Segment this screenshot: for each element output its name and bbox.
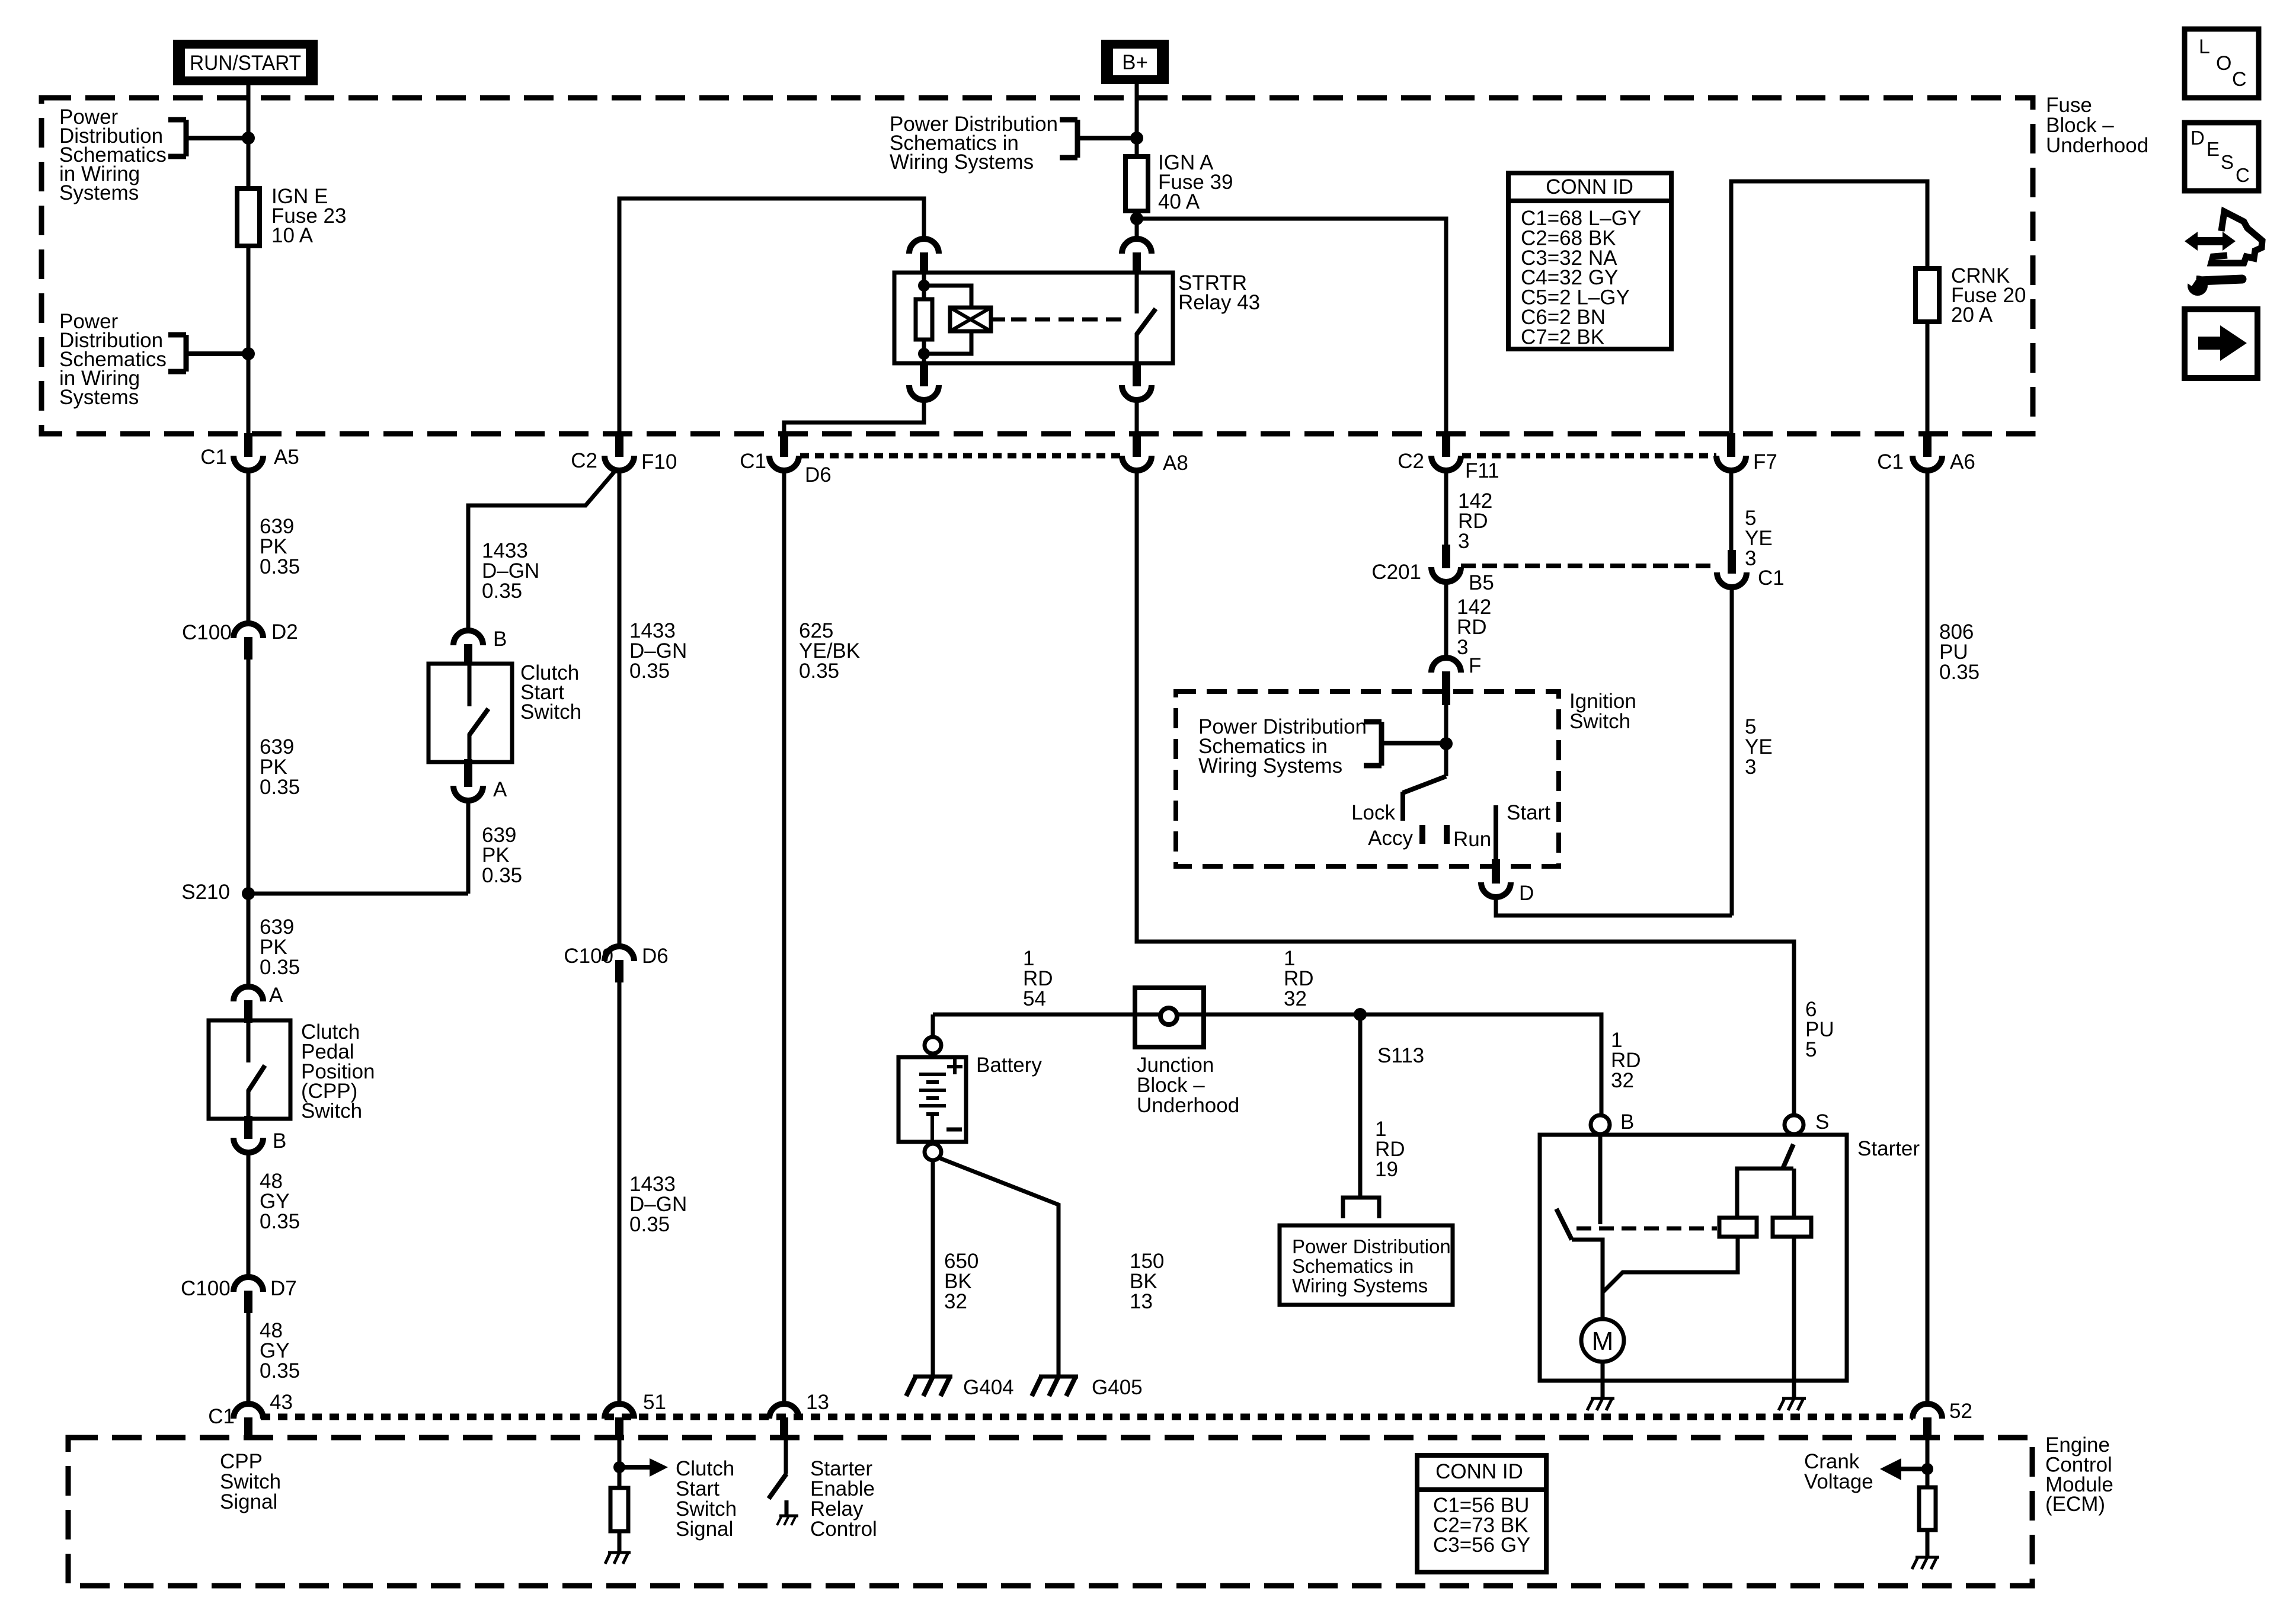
- svg-text:C: C: [2232, 68, 2247, 91]
- starter dashed actuator line: [1576, 1227, 1717, 1231]
- relay pin 87 connector: [1133, 363, 1141, 386]
- svg-text:Switch: Switch: [520, 700, 581, 724]
- svg-text:D7: D7: [270, 1277, 297, 1300]
- svg-text:Starter: Starter: [1857, 1137, 1920, 1160]
- dotted line D6 to A8: [800, 453, 1122, 459]
- connector C1-43: [244, 1417, 252, 1440]
- svg-text:B: B: [493, 628, 507, 651]
- svg-text:Relay 43: Relay 43: [1178, 291, 1260, 314]
- connector 13: [780, 1417, 788, 1440]
- wire D to starter S branch: [1496, 897, 1732, 916]
- svg-text:(ECM): (ECM): [2045, 1493, 2105, 1516]
- svg-text:C2: C2: [1398, 450, 1424, 473]
- svg-text:F11: F11: [1465, 459, 1499, 482]
- terminal B+: [1101, 40, 1169, 84]
- wire battery negative to G405: [938, 1157, 1059, 1376]
- svg-text:S210: S210: [181, 881, 230, 904]
- relay coil circuit: [922, 273, 926, 363]
- dotted ECM boundary line: [261, 1414, 1913, 1420]
- connector F of ignition switch: [1442, 671, 1450, 705]
- svg-text:Schematics in: Schematics in: [1292, 1255, 1414, 1277]
- connector F7: [1727, 433, 1735, 457]
- wire S113 to starter B: [1360, 1014, 1601, 1115]
- starter B terminal: [1591, 1115, 1610, 1134]
- svg-text:3: 3: [1458, 530, 1469, 553]
- starter box: [1540, 1135, 1847, 1381]
- svg-text:0.35: 0.35: [260, 1210, 300, 1233]
- connector A of clutch start switch: [464, 759, 472, 787]
- relay coil X symbol: [950, 308, 991, 331]
- svg-text:Signal: Signal: [676, 1518, 733, 1541]
- resistor in ECM (clutch): [610, 1488, 628, 1531]
- svg-text:Lock: Lock: [1351, 801, 1395, 824]
- wire pull-in coil to motor: [1603, 1237, 1738, 1292]
- svg-text:Run: Run: [1453, 828, 1491, 851]
- svg-text:Wiring Systems: Wiring Systems: [1198, 754, 1342, 777]
- connector to power distribution reference: [1343, 1198, 1379, 1218]
- svg-text:C3=56 GY: C3=56 GY: [1433, 1534, 1530, 1557]
- svg-text:0.35: 0.35: [260, 956, 300, 979]
- svg-text:Battery: Battery: [976, 1054, 1042, 1077]
- connector C1-D6: [780, 433, 788, 457]
- relay pin 85 connector: [920, 363, 928, 386]
- svg-text:Systems: Systems: [59, 386, 139, 409]
- svg-text:B5: B5: [1469, 571, 1494, 594]
- connector C2-F11: [1442, 433, 1450, 457]
- svg-text:S: S: [2221, 151, 2234, 173]
- connector A of CPP switch: [244, 1000, 252, 1023]
- wire F7 up over to CRNK fuse: [1731, 181, 1927, 434]
- svg-text:0.35: 0.35: [260, 555, 300, 578]
- svg-text:Power Distribution: Power Distribution: [1292, 1235, 1451, 1257]
- connector C1-A6: [1923, 433, 1932, 457]
- svg-text:10 A: 10 A: [271, 224, 314, 247]
- svg-text:0.35: 0.35: [1939, 661, 1980, 684]
- svg-text:F7: F7: [1753, 450, 1777, 473]
- connector C100-D6: [615, 960, 623, 982]
- relay pin 30 connector: [1133, 252, 1141, 274]
- wire C100-D6 down to ECM 51: [618, 982, 622, 1404]
- svg-text:S113: S113: [1377, 1044, 1424, 1067]
- connector 51: [615, 1417, 623, 1440]
- CPP switch blade: [247, 1020, 251, 1062]
- wire B+ down to relay: [1135, 84, 1139, 239]
- relay actuator stub: [991, 318, 1005, 322]
- svg-text:D6: D6: [805, 463, 832, 486]
- splice S113: [1354, 1008, 1367, 1021]
- relay STRTR Relay 43 box: [894, 273, 1173, 363]
- ignition switch dashed box: [1176, 692, 1559, 866]
- bracket upper-left: [184, 120, 189, 156]
- connector B of CPP switch: [244, 1116, 252, 1139]
- svg-text:Wiring Systems: Wiring Systems: [890, 151, 1034, 174]
- svg-text:Wiring Systems: Wiring Systems: [1292, 1275, 1428, 1297]
- svg-text:0.35: 0.35: [260, 1359, 300, 1382]
- svg-text:B+: B+: [1122, 51, 1148, 74]
- wire C1-D6 down to ECM 13: [782, 470, 786, 1404]
- wire battery negative to G404: [931, 1160, 935, 1376]
- svg-text:Signal: Signal: [220, 1490, 277, 1513]
- svg-text:0.35: 0.35: [629, 1213, 670, 1236]
- svg-text:D2: D2: [271, 620, 298, 644]
- svg-text:C100: C100: [182, 621, 232, 644]
- svg-text:20 A: 20 A: [1951, 303, 1993, 327]
- svg-text:3: 3: [1457, 636, 1468, 659]
- CPP switch box: [209, 1020, 290, 1119]
- svg-text:F: F: [1469, 654, 1481, 677]
- wire S210 down: [247, 894, 251, 987]
- connector C100-D7: [244, 1291, 252, 1313]
- ground G404: [913, 1375, 952, 1379]
- wire CPP B down: [247, 1153, 251, 1278]
- relay switch: [1135, 274, 1139, 313]
- bracket ignition: [1379, 722, 1384, 766]
- svg-text:13: 13: [1130, 1290, 1153, 1313]
- connector C201-B5: [1442, 545, 1450, 568]
- svg-text:32: 32: [1284, 987, 1307, 1010]
- battery negative terminal: [925, 1144, 941, 1160]
- splice S210: [242, 887, 255, 900]
- svg-text:0.35: 0.35: [799, 660, 839, 683]
- svg-text:B: B: [1620, 1110, 1634, 1134]
- ignition switch blade: [1403, 776, 1446, 793]
- svg-text:L: L: [2199, 36, 2210, 58]
- svg-text:CONN ID: CONN ID: [1546, 175, 1633, 199]
- svg-text:G404: G404: [963, 1376, 1014, 1399]
- fuse IGN E Fuse 23 10A: [237, 188, 260, 246]
- junction dot under IGN A fuse: [1130, 212, 1143, 225]
- svg-text:M: M: [1592, 1327, 1614, 1356]
- starter motor M: [1581, 1319, 1624, 1362]
- junction dot upper left: [242, 132, 255, 145]
- connector C1-A5: [244, 433, 252, 457]
- connector B of clutch start switch: [464, 644, 472, 665]
- svg-text:32: 32: [944, 1290, 967, 1313]
- wire to S210: [248, 892, 468, 896]
- svg-text:54: 54: [1023, 987, 1046, 1010]
- junction block underhood: [1135, 988, 1204, 1047]
- connector C2-F10: [615, 433, 623, 457]
- CONN ID table ECM: [1417, 1455, 1546, 1572]
- svg-text:Underhood: Underhood: [1137, 1094, 1239, 1117]
- bracket B+ area: [1075, 120, 1080, 158]
- junction block terminal circle: [1160, 1008, 1177, 1025]
- svg-text:A: A: [493, 778, 507, 801]
- svg-text:A6: A6: [1950, 450, 1975, 473]
- starter S blade: [1783, 1144, 1793, 1169]
- svg-text:Systems: Systems: [59, 181, 139, 204]
- ignition Lock contact: [1400, 792, 1405, 821]
- wire clutch A down: [466, 801, 471, 894]
- Run contact tick: [1444, 825, 1450, 844]
- svg-text:D: D: [2191, 127, 2205, 149]
- svg-text:13: 13: [806, 1391, 829, 1414]
- svg-text:0.35: 0.35: [260, 776, 300, 799]
- forward arrow icon box: [2185, 309, 2257, 378]
- wire A6 down to ECM 52: [1926, 472, 1930, 1403]
- starter hold-in coil: [1773, 1218, 1811, 1237]
- ignition Start contact: [1494, 805, 1498, 866]
- svg-text:C1: C1: [1758, 566, 1785, 590]
- crank voltage circuit: [1926, 1440, 1930, 1487]
- fuse IGN A Fuse 39 40A: [1125, 156, 1148, 211]
- svg-text:0.35: 0.35: [482, 580, 522, 603]
- fuse block underhood dashed box: [41, 98, 2033, 434]
- svg-text:A5: A5: [274, 446, 299, 469]
- wire B5 down to ignition F: [1444, 581, 1448, 658]
- terminal RUN/START: [173, 40, 318, 85]
- starter pull-in coil: [1719, 1218, 1757, 1237]
- wire F11 down to C201-B5: [1444, 470, 1448, 545]
- svg-text:Switch: Switch: [1569, 710, 1630, 733]
- svg-text:C100: C100: [181, 1277, 231, 1300]
- svg-text:32: 32: [1611, 1069, 1634, 1092]
- svg-text:C7=2 BK: C7=2 BK: [1521, 325, 1604, 348]
- svg-text:E: E: [2207, 138, 2220, 160]
- svg-text:CONN ID: CONN ID: [1435, 1460, 1523, 1483]
- wire relay 87 to A8: [1135, 399, 1139, 434]
- LOC icon box: [2185, 29, 2259, 98]
- svg-text:0.35: 0.35: [482, 864, 522, 887]
- connector C100-D2: [244, 637, 252, 660]
- wire RUN/START down to C1-A5: [247, 85, 251, 434]
- svg-text:RUN/START: RUN/START: [190, 52, 301, 75]
- svg-text:3: 3: [1745, 547, 1756, 570]
- svg-text:52: 52: [1949, 1400, 1972, 1423]
- wire F10 to clutch start switch: [468, 469, 617, 630]
- DESC icon box: [2185, 123, 2259, 191]
- svg-text:C1: C1: [200, 446, 227, 469]
- wire S to hold-in coil: [1792, 1169, 1796, 1218]
- ground in ECM clutch circuit: [608, 1551, 631, 1554]
- svg-text:Underhood: Underhood: [2046, 134, 2148, 157]
- relay dashed actuator line: [1011, 318, 1127, 322]
- svg-text:O: O: [2216, 52, 2231, 75]
- resistor in ECM (crank): [1919, 1487, 1936, 1530]
- ground under starter motor: [1591, 1397, 1614, 1400]
- svg-text:Voltage: Voltage: [1804, 1470, 1873, 1493]
- svg-text:C: C: [2236, 164, 2250, 186]
- wire CRNK fuse to C1-A6: [1926, 322, 1930, 434]
- connector C201-C1: [1728, 550, 1736, 574]
- wire A5 down: [247, 470, 251, 624]
- wire D7 down to ECM 43: [247, 1313, 251, 1404]
- bracket lower-left: [184, 335, 189, 372]
- wire D2 down to S210: [247, 660, 251, 894]
- svg-text:0.35: 0.35: [629, 660, 670, 683]
- wire A8 down to starter S: [1137, 472, 1794, 1114]
- ground in ECM crank circuit: [1916, 1556, 1939, 1559]
- svg-text:51: 51: [643, 1391, 666, 1414]
- wire S to pull-in coil: [1737, 1169, 1793, 1218]
- clutch start switch signal circuit: [618, 1440, 622, 1488]
- junction dot under B+: [1130, 132, 1143, 145]
- clutch start switch blade: [468, 664, 472, 706]
- battery cell plates: [919, 1073, 946, 1076]
- starter solenoid contact: [1598, 1134, 1603, 1224]
- svg-text:40 A: 40 A: [1158, 190, 1200, 213]
- svg-text:43: 43: [270, 1391, 293, 1414]
- svg-text:A8: A8: [1163, 452, 1188, 475]
- svg-text:B: B: [273, 1129, 286, 1153]
- battery box: [898, 1057, 966, 1142]
- dotted line F11 to F7: [1462, 453, 1716, 459]
- junction dot ignition: [1440, 737, 1453, 750]
- wire battery to junction block and S113: [933, 1013, 1360, 1017]
- clutch start switch box: [428, 664, 512, 762]
- svg-text:3: 3: [1745, 756, 1756, 779]
- fuse CRNK Fuse 20 20A: [1916, 268, 1939, 322]
- junction dot lower left: [242, 347, 255, 360]
- CONN ID table fuse block: [1508, 173, 1671, 349]
- connector D of ignition switch: [1492, 859, 1500, 884]
- starter S terminal: [1785, 1115, 1803, 1134]
- starter enable relay control switch: [784, 1440, 788, 1474]
- power distribution reference box: [1280, 1225, 1453, 1305]
- ignition switch wiring: [1444, 705, 1448, 776]
- service icon (double arrow, vehicle outline, wrench): [2183, 212, 2262, 296]
- connector A8: [1133, 433, 1141, 457]
- relay pin 86 connector: [920, 252, 928, 274]
- wire F7 down to C201-C1: [1729, 470, 1734, 550]
- Accy contact tick: [1419, 825, 1425, 844]
- wire F10 down to C100-D6: [618, 470, 622, 947]
- wire IGN A to C2-F11: [1137, 219, 1446, 434]
- wire F10 up to STRTR relay coil: [619, 199, 924, 434]
- battery positive terminal: [925, 1037, 941, 1054]
- svg-text:G405: G405: [1092, 1376, 1143, 1399]
- svg-text:Accy: Accy: [1368, 827, 1413, 850]
- engine control module dashed box: [68, 1438, 2032, 1586]
- wire S113 down: [1358, 1014, 1363, 1196]
- svg-text:Control: Control: [810, 1518, 877, 1541]
- svg-text:A: A: [269, 984, 283, 1007]
- svg-text:D6: D6: [642, 945, 669, 968]
- svg-text:C100: C100: [564, 945, 613, 968]
- svg-text:C1: C1: [1877, 450, 1904, 473]
- svg-text:C1: C1: [208, 1405, 235, 1428]
- svg-text:F10: F10: [641, 450, 677, 473]
- wire motor to ground: [1601, 1362, 1605, 1398]
- ground under starter solenoid: [1782, 1397, 1806, 1400]
- ground starter enable: [779, 1515, 798, 1518]
- wire hold-in coil to ground: [1792, 1237, 1796, 1398]
- svg-text:Switch: Switch: [301, 1100, 362, 1123]
- svg-text:5: 5: [1805, 1038, 1817, 1061]
- svg-text:Start: Start: [1507, 801, 1550, 824]
- wire C201-C1 down: [1730, 587, 1734, 916]
- ground G405: [1039, 1375, 1078, 1379]
- svg-text:C2: C2: [571, 449, 597, 472]
- dashed line B5 to C1: [1461, 564, 1717, 568]
- svg-text:19: 19: [1375, 1158, 1398, 1181]
- wire relay 85 to C1-D6: [784, 399, 924, 434]
- svg-text:D: D: [1519, 882, 1534, 905]
- battery minus sign: [946, 1128, 962, 1132]
- connector 52: [1923, 1417, 1932, 1440]
- svg-text:C1: C1: [740, 450, 766, 473]
- svg-text:S: S: [1815, 1110, 1829, 1134]
- wire battery positive up: [931, 1014, 935, 1038]
- svg-text:C201: C201: [1371, 561, 1421, 584]
- battery plus sign: [947, 1065, 962, 1068]
